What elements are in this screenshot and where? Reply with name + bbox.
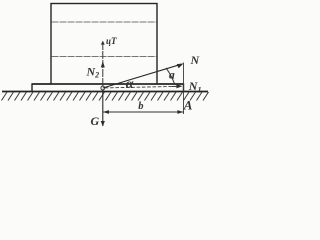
svg-text:N2: N2: [86, 64, 100, 79]
svg-text:A: A: [183, 98, 193, 113]
svg-text:a: a: [169, 69, 175, 81]
svg-text:G: G: [91, 114, 100, 128]
svg-text:цТ: цТ: [106, 36, 117, 46]
svg-text:b: b: [138, 101, 143, 112]
svg-text:N: N: [190, 53, 201, 67]
svg-text:N1: N1: [188, 79, 202, 94]
svg-text:α: α: [126, 77, 134, 92]
